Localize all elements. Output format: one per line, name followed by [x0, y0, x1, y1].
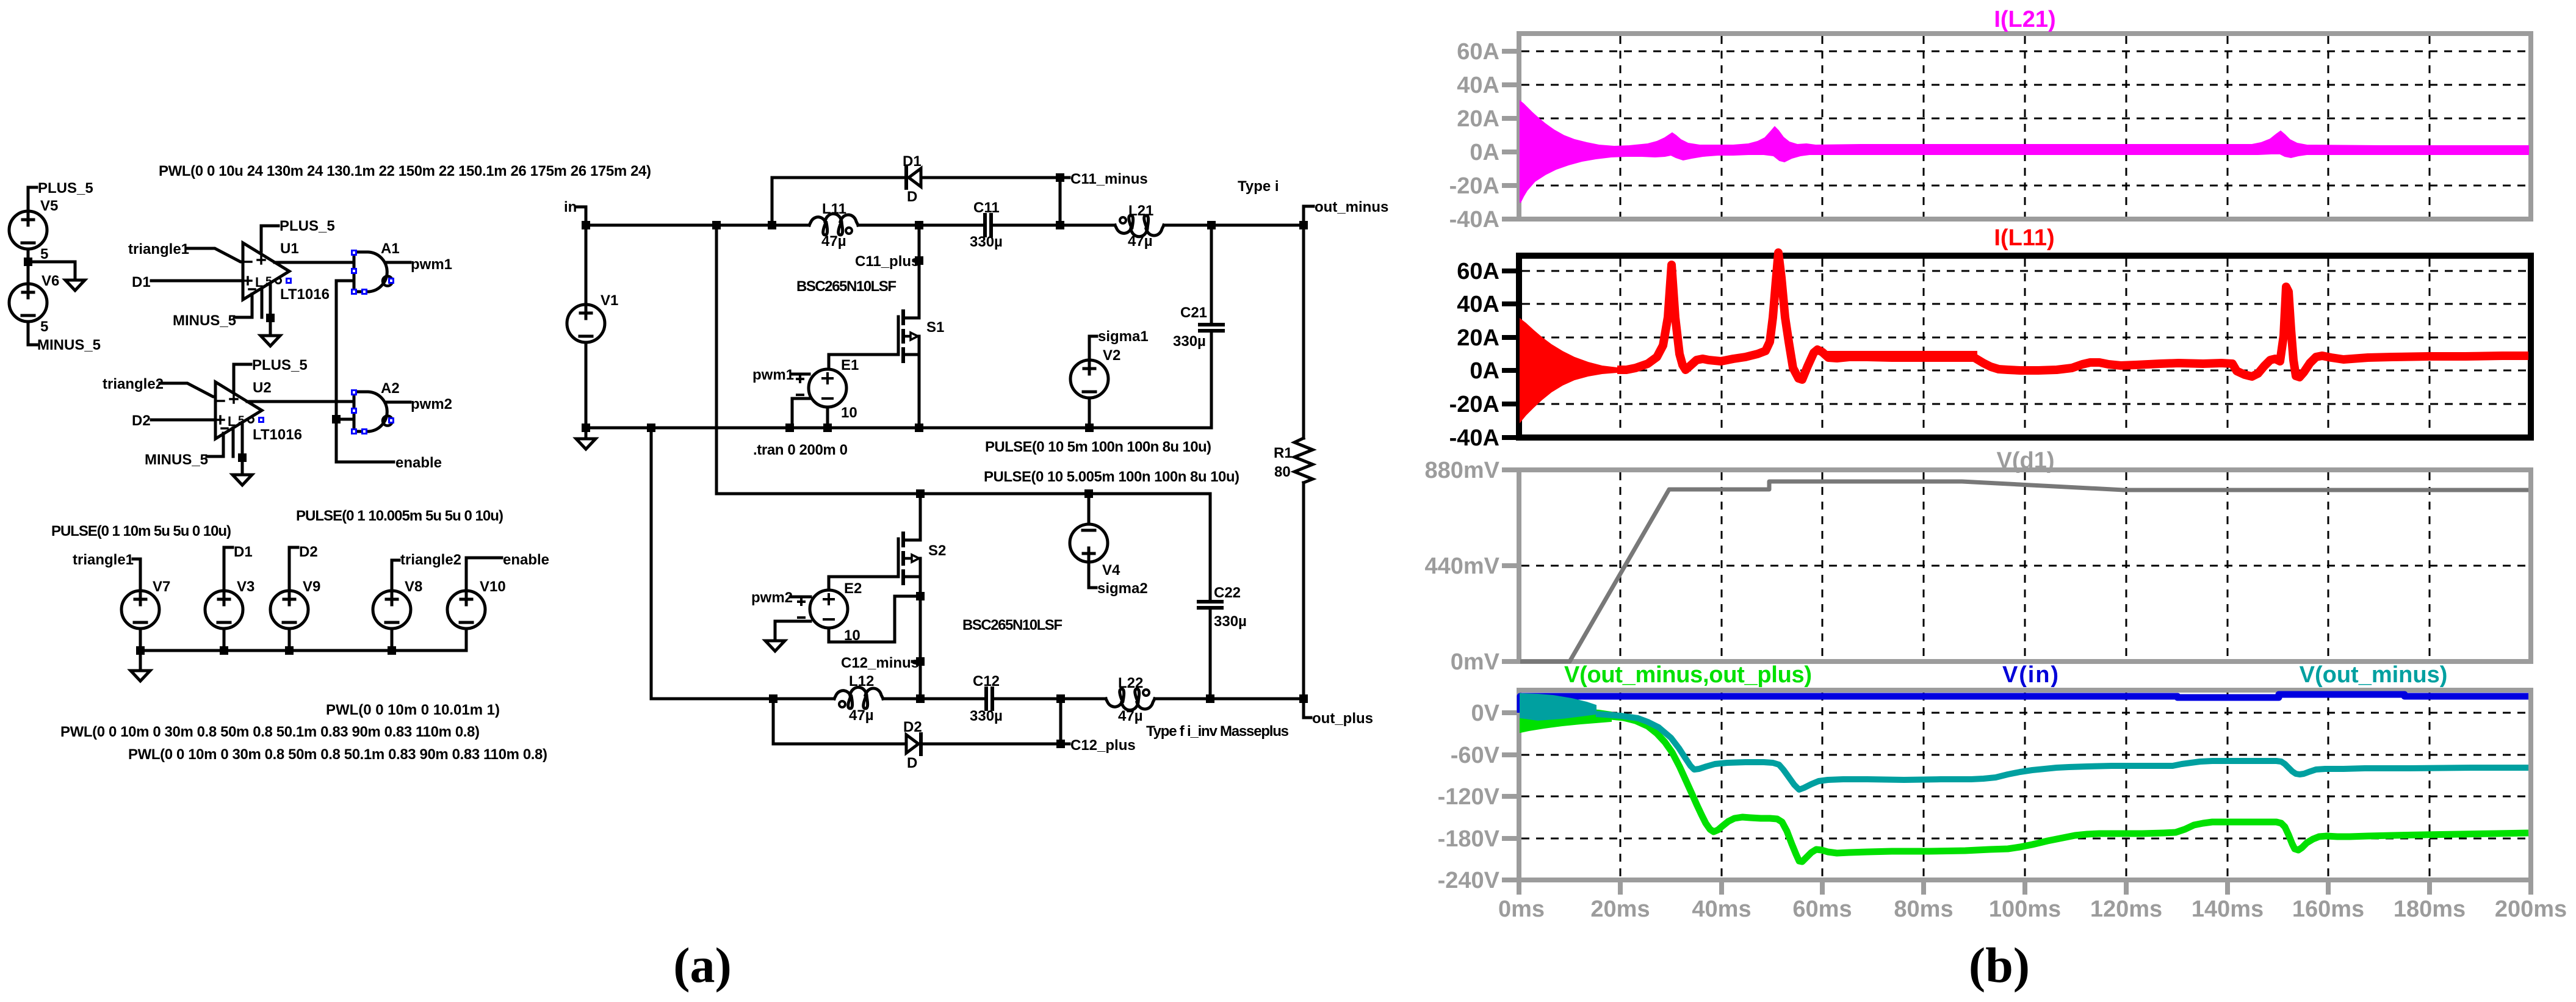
svg-text:C21: C21 — [1180, 305, 1207, 321]
wire pwm1 to E1 — [792, 373, 809, 376]
svg-text:V5: V5 — [40, 198, 58, 214]
svg-text:C11: C11 — [973, 200, 1000, 216]
svg-text:E1: E1 — [841, 357, 859, 373]
wire V10 to rail — [465, 629, 468, 651]
svg-text:C12: C12 — [973, 673, 1000, 690]
svg-text:D2: D2 — [132, 413, 151, 429]
wire L11 to C11 — [858, 224, 983, 227]
svg-text:440mV: 440mV — [1424, 553, 1499, 579]
junction C11_minus — [1056, 173, 1064, 182]
svg-text:V(out_minus,out_plus): V(out_minus,out_plus) — [1564, 662, 1812, 688]
wire V3 to rail — [223, 629, 226, 651]
plot1 y ticks — [1502, 51, 1519, 219]
wire C11_minus down to rail — [1059, 178, 1062, 225]
svg-text:triangle1: triangle1 — [128, 241, 189, 258]
inductor L12 — [834, 687, 883, 708]
junction L12/S2/C12 — [916, 694, 925, 703]
wire U1 gnd pin down — [269, 283, 272, 336]
svg-text:C12_minus: C12_minus — [841, 655, 919, 671]
diode D2 — [906, 735, 918, 753]
node C11_minus label — [1060, 176, 1069, 179]
svg-text:-120V: -120V — [1438, 784, 1500, 810]
wire V7 to rail — [139, 629, 142, 651]
svg-text:in: in — [564, 199, 577, 215]
svg-text:L21: L21 — [1128, 203, 1153, 219]
wire enable vertical rail — [336, 281, 394, 462]
inductor L21 (flipped) — [1115, 215, 1164, 237]
pin inverted output A1 — [388, 278, 394, 284]
pin E1 control + — [797, 376, 803, 382]
plot2 y ticks (black) — [1502, 271, 1519, 438]
svg-text:180ms: 180ms — [2394, 896, 2466, 922]
wire in rail down to lower converter — [716, 225, 1210, 494]
svg-text:enable: enable — [503, 552, 549, 568]
svg-text:S2: S2 — [928, 542, 946, 559]
comparator U2 LT1016 — [215, 382, 262, 439]
junction lower branch tap — [647, 424, 655, 432]
svg-text:V1: V1 — [601, 292, 618, 309]
wire sources ground rail — [140, 649, 466, 652]
pin unused inputs A1 (blue ports) — [351, 250, 357, 256]
svg-text:5: 5 — [40, 319, 48, 335]
svg-text:C11_minus: C11_minus — [1070, 171, 1148, 187]
svg-text:60A: 60A — [1457, 39, 1499, 65]
wire V6 to MINUS_5 — [28, 322, 37, 345]
voltage source V8 — [373, 591, 411, 629]
junction E1 minus control — [785, 424, 794, 432]
voltage source V1 — [585, 225, 588, 305]
wire ground rail down to L12 row — [651, 428, 773, 699]
svg-text:PWL(0 0 10m 0 10.01m 1): PWL(0 0 10m 0 10.01m 1) — [326, 702, 500, 718]
svg-text:100ms: 100ms — [1989, 896, 2061, 922]
plot1 I(L21) pane border — [1519, 34, 2531, 219]
svg-text:Type f i_inv Masseplus: Type f i_inv Masseplus — [1146, 723, 1289, 740]
plot2 grid — [1522, 259, 2528, 434]
voltage source V7 — [121, 591, 159, 629]
svg-text:V(out_minus): V(out_minus) — [2300, 662, 2448, 688]
junction S1 source — [915, 424, 923, 432]
junction D1 branch top rail — [768, 221, 776, 229]
svg-text:V6: V6 — [41, 273, 59, 289]
junction C11_plus — [915, 256, 923, 265]
svg-text:enable: enable — [395, 455, 442, 471]
capacitor C11 — [983, 215, 987, 236]
svg-text:L11: L11 — [822, 201, 846, 217]
svg-text:PULSE(0 1 10.005m 5u 5u 0 10u): PULSE(0 1 10.005m 5u 5u 0 10u) — [296, 508, 503, 524]
svg-text:200ms: 200ms — [2495, 896, 2567, 922]
svg-text:pwm1: pwm1 — [752, 367, 794, 383]
svg-text:triangle2: triangle2 — [400, 552, 461, 568]
svg-text:47µ: 47µ — [821, 233, 846, 250]
trace V(out_minus) cyan — [1596, 714, 2528, 790]
junction L12 left node — [769, 694, 777, 703]
wire junction to ground stub — [28, 262, 75, 280]
pin Q output (U1, blue port) — [286, 278, 292, 284]
junction V2 bottom — [1085, 424, 1094, 432]
svg-text:PULSE(0 10 5m 100n 100n 8u 10u: PULSE(0 10 5m 100n 100n 8u 10u) — [985, 439, 1211, 455]
svg-text:PLUS_5: PLUS_5 — [252, 357, 308, 373]
pin E2 control + — [798, 599, 804, 605]
wire V4 bottom to sigma2 — [1089, 562, 1096, 588]
wire triangle1 to V7 — [133, 559, 140, 591]
junction U2 ground — [238, 453, 247, 462]
capacitor C22 — [1199, 600, 1222, 604]
plot4 grid — [1521, 693, 2528, 878]
wire C12_plus up — [1059, 699, 1063, 744]
ground (U1) — [261, 336, 280, 346]
diode D1 — [904, 168, 908, 188]
wire D2 row left — [773, 743, 906, 746]
trace I(L21) magenta envelope — [1520, 101, 2528, 203]
svg-text:pwm2: pwm2 — [751, 589, 793, 606]
wire triangle2 to U2 — [160, 383, 215, 397]
svg-text:BSC265N10LSF: BSC265N10LSF — [796, 278, 897, 295]
svg-text:L22: L22 — [1118, 675, 1143, 691]
wire rail to ground — [139, 651, 142, 671]
svg-text:D2: D2 — [299, 544, 318, 560]
svg-text:(b): (b) — [1969, 937, 2030, 993]
svg-text:-20A: -20A — [1449, 173, 1499, 199]
junction U1 ground — [266, 314, 275, 322]
wire U2 output to A2 — [247, 400, 354, 403]
pin E2 control - — [798, 616, 804, 619]
svg-text:60A: 60A — [1457, 259, 1499, 284]
wire D2 to U2 — [151, 419, 215, 422]
svg-text:80: 80 — [1274, 464, 1291, 480]
wire MINUS_5 to U2 V- pin — [207, 433, 223, 456]
junction V8/rail — [388, 646, 396, 655]
nand gate A2 — [354, 392, 392, 431]
svg-text:330µ: 330µ — [1173, 333, 1206, 350]
svg-text:47µ: 47µ — [1128, 233, 1153, 250]
transistor S2 (nmos) — [898, 533, 920, 583]
svg-text:0ms: 0ms — [1498, 896, 1545, 922]
wire D2 row right — [923, 743, 1061, 746]
svg-text:D: D — [907, 189, 917, 205]
wire S1 source to rail — [918, 355, 921, 428]
wire E2 bottom to S2 source — [829, 596, 920, 642]
wire bottom rail — [586, 427, 1211, 430]
wire E2 minus control to ground — [775, 621, 810, 641]
wire V8 to rail — [391, 629, 394, 651]
wire C21 top — [1210, 225, 1213, 322]
pin Q output (U2, blue port) — [258, 417, 264, 423]
pin unused inputs A2 (blue ports) — [351, 389, 357, 395]
svg-text:D1: D1 — [234, 544, 253, 560]
plot3 y ticks — [1502, 470, 1519, 661]
plot2 I(L11) pane border (black, active) — [1519, 256, 2531, 438]
wire A2 output to pwm2 — [385, 401, 410, 404]
svg-text:PULSE(0 10 5.005m 100n 100n 8u: PULSE(0 10 5.005m 100n 100n 8u 10u) — [984, 469, 1239, 485]
wire S1 drain — [918, 225, 921, 318]
svg-text:LT1016: LT1016 — [280, 286, 330, 303]
svg-text:PLUS_5: PLUS_5 — [280, 218, 335, 234]
svg-text:D: D — [907, 755, 917, 771]
junction in rail top — [712, 221, 721, 229]
wire enable to A1 input — [336, 279, 354, 283]
svg-text:V4: V4 — [1102, 562, 1120, 578]
pin inverted output A2 — [388, 417, 394, 424]
wire S2 source down — [919, 577, 922, 699]
comparator U1 LT1016 — [243, 243, 289, 300]
svg-text:60ms: 60ms — [1792, 896, 1852, 922]
svg-text:Type i: Type i — [1238, 178, 1279, 195]
wire S1 gate — [829, 355, 897, 369]
svg-text:10: 10 — [841, 405, 857, 421]
svg-text:0V: 0V — [1471, 701, 1500, 726]
svg-text:(a): (a) — [673, 937, 732, 993]
voltage source V2 — [1070, 360, 1108, 398]
svg-text:pwm2: pwm2 — [411, 396, 452, 413]
wire triangle1 to U1 — [187, 248, 243, 262]
wire D2 to V9 — [289, 547, 298, 591]
svg-text:D2: D2 — [903, 719, 922, 735]
svg-text:triangle1: triangle1 — [73, 552, 134, 568]
svg-text:120ms: 120ms — [2090, 896, 2162, 922]
junction S1 drain tap — [915, 221, 923, 229]
plot3 V(d1) pane border — [1519, 470, 2531, 661]
ground (E2) — [765, 641, 785, 651]
svg-text:I(L21): I(L21) — [1994, 7, 2055, 32]
junction V1 minus — [582, 424, 590, 432]
junction C21 top — [1207, 221, 1216, 229]
plot4 pane border — [1519, 690, 2531, 880]
svg-text:U2: U2 — [253, 380, 272, 396]
trace V(out_minus) cyan envelope — [1520, 694, 1596, 720]
svg-text:A1: A1 — [381, 240, 400, 257]
wire V9 to rail — [288, 629, 291, 651]
svg-text:V3: V3 — [237, 578, 254, 595]
svg-text:-40A: -40A — [1449, 207, 1499, 232]
plot1 y labels — [1449, 39, 1499, 232]
svg-text:40A: 40A — [1457, 292, 1499, 317]
svg-text:PWL(0 0 10m 0 30m 0.8 50m 0.8: PWL(0 0 10m 0 30m 0.8 50m 0.8 50.1m 0.83… — [128, 746, 547, 763]
trace V(d1) gray — [1520, 481, 2528, 661]
wire U1 middle pin down — [261, 289, 264, 317]
wire PLUS_5 to V5 — [28, 187, 37, 211]
svg-text:20ms: 20ms — [1590, 896, 1650, 922]
svg-text:40ms: 40ms — [1692, 896, 1751, 922]
wire L22 to out_plus — [1155, 697, 1304, 701]
wire U2 gnd pin down — [241, 422, 244, 475]
junction C12 right — [1056, 694, 1065, 703]
svg-text:I(L11): I(L11) — [1994, 225, 2054, 251]
wire L12 to S2 node — [883, 697, 984, 701]
junction C11 right node — [1056, 221, 1064, 229]
wire MINUS_5 to U1 V- pin — [234, 294, 252, 317]
svg-text:PWL(0 0 10m 0 30m 0.8 50m 0.8: PWL(0 0 10m 0 30m 0.8 50m 0.8 50.1m 0.83… — [60, 724, 480, 740]
ground (U2) — [233, 475, 252, 485]
inductor L22 (flipped) — [1106, 689, 1155, 710]
nand gate A1 — [354, 252, 392, 292]
wire C22 bottom — [1209, 610, 1212, 699]
wire out_minus label elbow — [1304, 206, 1313, 225]
svg-text:MINUS_5: MINUS_5 — [145, 452, 208, 468]
inductor L11 — [809, 214, 858, 235]
node C12_plus label — [1061, 743, 1069, 746]
svg-text:sigma2: sigma2 — [1097, 580, 1148, 597]
svg-text:E2: E2 — [844, 580, 862, 597]
junction enable/A2 — [332, 415, 341, 424]
svg-text:sigma1: sigma1 — [1098, 328, 1149, 345]
wire U2 middle pin down — [232, 428, 235, 456]
resistor R1 — [1302, 225, 1305, 438]
junction C12_plus — [1056, 740, 1065, 748]
plot4 x ticks — [1519, 880, 2531, 895]
svg-text:PLUS_5: PLUS_5 — [38, 180, 93, 196]
wire PLUS_5 to U2 top — [234, 364, 251, 391]
junction V9/rail — [285, 646, 294, 655]
svg-text:330µ: 330µ — [1214, 613, 1247, 630]
junction in node — [582, 221, 590, 229]
svg-text:5: 5 — [40, 246, 48, 262]
junction C12_minus — [916, 657, 925, 666]
svg-text:triangle2: triangle2 — [103, 376, 164, 392]
svg-text:C22: C22 — [1214, 585, 1241, 601]
svg-text:0A: 0A — [1470, 358, 1499, 384]
wire C11 to C11_minus junction — [994, 224, 1060, 227]
svg-text:MINUS_5: MINUS_5 — [173, 312, 236, 329]
wire S2 gate — [829, 577, 897, 590]
svg-text:330µ: 330µ — [970, 708, 1003, 724]
svg-text:pwm1: pwm1 — [411, 256, 452, 273]
svg-text:V(d1): V(d1) — [1997, 448, 2055, 474]
capacitor C21 — [1200, 323, 1223, 326]
svg-text:V9: V9 — [303, 578, 320, 595]
trace V(in) blue — [1520, 694, 2528, 713]
svg-text:LT1016: LT1016 — [253, 427, 302, 443]
svg-text:-60V: -60V — [1451, 743, 1500, 768]
wire U1 output to A1 — [275, 261, 354, 264]
svg-text:U1: U1 — [280, 240, 299, 257]
wire enable to A2 input — [336, 418, 354, 421]
wire C22 top — [1209, 494, 1212, 599]
plot3 y labels — [1424, 458, 1499, 675]
wire E1 bottom to rail — [826, 407, 829, 428]
svg-text:0A: 0A — [1470, 140, 1499, 165]
wire D2 branch down — [772, 699, 775, 744]
wire S2 drain — [919, 494, 922, 540]
wire to L21 — [1060, 224, 1115, 227]
svg-text:40A: 40A — [1457, 73, 1499, 98]
voltage source V9 — [270, 591, 308, 629]
wire L12 left — [773, 697, 834, 701]
svg-text:0mV: 0mV — [1451, 649, 1500, 675]
ground (V5/V6 midpoint) — [65, 280, 85, 290]
svg-text:.tran 0 200m 0: .tran 0 200m 0 — [753, 442, 848, 458]
svg-text:A2: A2 — [381, 380, 400, 397]
wire pwm2 to E2 — [790, 596, 810, 599]
plot2 y labels (black) — [1449, 259, 1499, 451]
voltage source V4 (inverted) — [1070, 524, 1108, 562]
plot3 grid — [1521, 472, 2528, 659]
pin E1 control - — [797, 394, 803, 396]
svg-text:47µ: 47µ — [1118, 708, 1143, 724]
svg-text:-40A: -40A — [1449, 425, 1499, 451]
junction C22 bottom — [1206, 694, 1214, 703]
wire PLUS_5 to U1 top — [261, 226, 278, 251]
wire D1 to V3 — [224, 547, 233, 591]
transistor S1 (nmos) — [898, 311, 919, 361]
svg-text:80ms: 80ms — [1894, 896, 1953, 922]
wire to L22 — [1061, 697, 1106, 701]
svg-text:-180V: -180V — [1438, 826, 1500, 852]
ground (sources rail) — [131, 671, 150, 681]
wire A1 output to pwm1 — [385, 261, 410, 264]
trace I(L11) red main line — [1617, 253, 2528, 380]
svg-text:V2: V2 — [1103, 347, 1120, 364]
plot4 y ticks — [1502, 713, 1519, 880]
svg-text:D1: D1 — [132, 274, 151, 290]
svg-text:out_plus: out_plus — [1312, 710, 1373, 727]
svg-text:MINUS_5: MINUS_5 — [37, 337, 101, 353]
svg-text:C11_plus: C11_plus — [855, 253, 919, 270]
wire C21 bottom — [1210, 333, 1213, 428]
wire in to top rail — [577, 207, 586, 225]
source E2 — [810, 590, 848, 628]
svg-text:V7: V7 — [153, 578, 170, 595]
plot4 y labels — [1438, 701, 1500, 893]
svg-text:20A: 20A — [1457, 325, 1499, 351]
wire V5 minus to junction — [27, 249, 30, 262]
wire D1 branch up — [771, 178, 774, 225]
wire E1 minus control to rail — [792, 398, 809, 428]
source E1 — [809, 369, 846, 407]
junction out_plus — [1299, 694, 1308, 703]
junction out_minus — [1299, 221, 1308, 229]
junction S2 drain tap — [916, 489, 925, 498]
wire triangle2 to V8 — [392, 560, 399, 591]
trace V(out_minus,out_plus) green envelope — [1520, 708, 1611, 732]
svg-text:47µ: 47µ — [849, 707, 874, 724]
svg-text:V10: V10 — [480, 578, 506, 595]
wire D1 row right — [922, 176, 1060, 179]
svg-text:330µ: 330µ — [970, 234, 1003, 250]
junction V7/rail/ground — [136, 646, 145, 655]
svg-text:V8: V8 — [405, 578, 422, 595]
svg-text:R1: R1 — [1274, 445, 1293, 461]
junction between V5 and V6 — [24, 258, 32, 266]
svg-text:L12: L12 — [849, 673, 874, 690]
wire D1 to U1 — [151, 279, 243, 283]
voltage source V5 — [9, 211, 47, 249]
svg-text:PWL(0 0 10u 24 130m 24 130.1m: PWL(0 0 10u 24 130m 24 130.1m 22 150m 22… — [159, 163, 651, 179]
svg-text:out_minus: out_minus — [1315, 199, 1388, 215]
svg-text:C12_plus: C12_plus — [1070, 737, 1136, 754]
wire D1 row left — [772, 176, 904, 179]
svg-text:PULSE(0 1 10m 5u 5u 0 10u): PULSE(0 1 10m 5u 5u 0 10u) — [51, 523, 231, 539]
junction E1 bottom — [823, 424, 832, 432]
junction V4 top — [1084, 489, 1093, 498]
svg-text:880mV: 880mV — [1424, 458, 1499, 483]
wire V1 minus down — [585, 342, 588, 428]
voltage source V10 — [447, 591, 485, 629]
trace I(L11) red: initial oscillation envelope — [1520, 319, 1617, 422]
svg-text:20A: 20A — [1457, 106, 1499, 132]
wire out_plus elbow — [1304, 699, 1311, 718]
svg-text:D1: D1 — [903, 153, 922, 170]
junction V3/rail — [220, 646, 228, 655]
trace V(out_minus,out_plus) green — [1611, 716, 2528, 862]
wire C12 right — [995, 697, 1061, 701]
svg-text:S1: S1 — [926, 319, 944, 336]
voltage source V6 — [9, 284, 47, 322]
svg-text:-240V: -240V — [1438, 868, 1500, 893]
wire V2 to rail — [1088, 398, 1091, 428]
plot4 x labels — [1498, 896, 2567, 922]
wire L21 to out_minus — [1164, 224, 1304, 227]
wire top rail (in to L11) — [586, 224, 809, 227]
